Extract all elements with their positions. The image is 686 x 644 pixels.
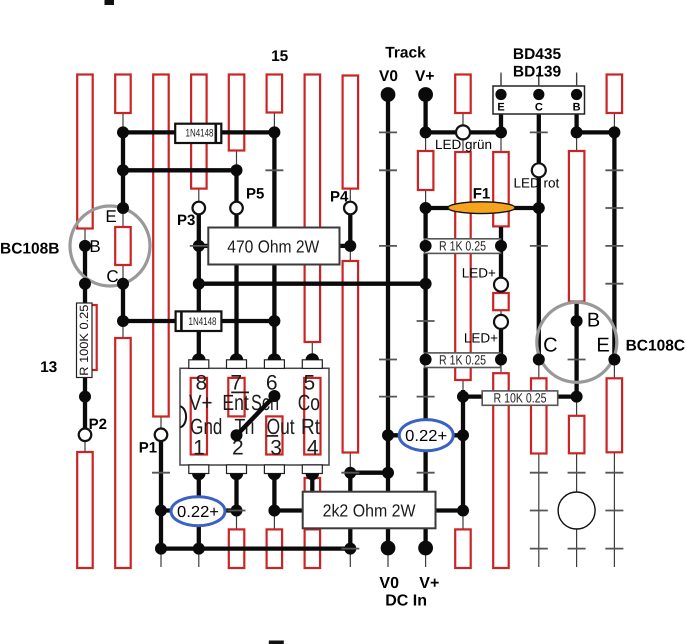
node Q1 collector [117, 278, 129, 290]
strip segment col6 bottom [267, 529, 283, 568]
svg-text:15: 15 [271, 48, 289, 65]
hole tick col9 row4 [379, 245, 397, 247]
svg-text:V+: V+ [189, 390, 213, 415]
strip segment col10 under V+ [418, 151, 434, 190]
board strip column 13 (x=538.8) [538, 75, 540, 568]
pad P3 [193, 202, 206, 215]
hole tick col15 row10 [605, 472, 623, 474]
svg-text:LED grün: LED grün [435, 137, 492, 152]
node row6 col2 [117, 315, 129, 327]
svg-text:BC108C: BC108C [626, 338, 685, 355]
svg-text:P4: P4 [330, 189, 349, 206]
node row8 col11 [457, 391, 469, 403]
strip segment col1 bottom [77, 452, 93, 568]
svg-text:LED+: LED+ [462, 266, 496, 281]
strip segment col11 tall [455, 152, 471, 380]
hole tick col3 row10 [152, 472, 170, 474]
hole tick col15 row2 [605, 169, 623, 171]
LED rot pad [532, 163, 546, 177]
wire col4 P3 down to IC pin 8 [197, 208, 201, 354]
hole tick col15 row3 [605, 207, 623, 209]
U1 pin label Ent overline [231, 391, 249, 393]
hole tick col9 row1 [379, 131, 397, 133]
LED D3 anode pad [494, 278, 508, 292]
node row3 col13 [533, 202, 545, 214]
svg-text:470 Ohm 2W: 470 Ohm 2W [227, 237, 319, 257]
U1 top socket pin 8 [189, 360, 209, 369]
wire col2 collector of Q1 to row6 [121, 284, 125, 321]
node row11 col6 [268, 505, 280, 517]
hole tick col6 row2 [265, 169, 283, 171]
hole tick col4 row4 [190, 245, 208, 247]
diode D1 cathode band [215, 124, 218, 143]
board strip column 7 (x=312.3) [311, 75, 313, 568]
svg-text:C: C [106, 267, 118, 286]
wire col6 IC pin 3 down to row11 [272, 480, 276, 511]
node row4 R3 right [495, 240, 507, 252]
transistor Q3 pin E dot [495, 89, 506, 100]
wire row4 col4 stub into 470 Ohm [199, 244, 209, 248]
strip segment col8 middle [343, 261, 359, 453]
U1 bottom socket pin 1 [189, 465, 209, 474]
hole tick col8 row10 [341, 472, 359, 474]
wire col7 IC pin 4 down to 2k2 resistor [310, 478, 314, 492]
svg-text:B: B [587, 310, 600, 332]
node row11 col11 [457, 505, 469, 517]
node row1 col6 [268, 126, 280, 138]
svg-text:P3: P3 [177, 212, 195, 229]
strip segment col11 bottom [455, 529, 471, 568]
U1 pin3 strip red marker [266, 416, 282, 454]
node row12 col4 [193, 543, 205, 555]
svg-text:C: C [543, 335, 557, 357]
hole tick col10 row10 [417, 472, 435, 474]
hole tick col14 row12 [568, 548, 586, 550]
node row4 R3 left [420, 240, 432, 252]
wire jumper IC pin 6 to pin 2 diagonal [237, 396, 275, 435]
capacitor C1 0.22uF [171, 497, 225, 526]
wire V+ below second R 1K to bottom terminal [423, 368, 427, 549]
wire row4 R 1K stub to LED anode [500, 244, 502, 248]
terminal V0 DC in bottom [381, 541, 396, 556]
board strip column 14 (x=576.6) [576, 75, 578, 568]
LED D3 cathode pad [494, 315, 508, 329]
strip segment col3 tall [153, 75, 169, 417]
node row1 col2 [117, 126, 129, 138]
transistor Q3 lead stub C [538, 73, 540, 87]
resistor R2 2k2 Ohm 2W box [303, 492, 436, 529]
resistor R3 1K box [425, 239, 501, 254]
transistor Q3 lead stub E [500, 73, 502, 87]
resistor R4 100K box [77, 303, 93, 378]
transistor Q3 lead stub B [576, 73, 578, 87]
U1 pin7 strip red marker [228, 378, 244, 417]
wire col6 below 470 Ohm to IC pin 6 [272, 265, 276, 354]
board strip column 11 (x=463) [462, 75, 464, 568]
wire row2 col2 to col5 [123, 168, 237, 172]
wire col5 below 470 Ohm to IC pin 7 [234, 265, 238, 354]
wire V+ terminal to row1 [423, 95, 427, 133]
hole tick col5 row11 [228, 510, 246, 512]
svg-text:R 1K 0.25: R 1K 0.25 [439, 353, 486, 368]
hole tick col10 row8 [417, 396, 435, 398]
svg-text:E: E [497, 102, 504, 114]
svg-text:F1: F1 [473, 186, 491, 203]
svg-text:BC108B: BC108B [0, 241, 59, 258]
pad P2 [79, 429, 92, 442]
wire col6 row1 into 470 Ohm [272, 132, 276, 227]
transistor Q2 BC108C outline [537, 302, 617, 382]
wire row11 col3 to col5 through capacitor C1 0.22 [161, 508, 237, 512]
hole tick col9 row8 [379, 396, 397, 398]
svg-text:LED rot: LED rot [514, 176, 560, 191]
strip segment col4 top [191, 75, 207, 189]
svg-text:LED+: LED+ [464, 331, 498, 346]
terminal V0 track top [381, 87, 396, 102]
board strip column 9 (x=388) [387, 95, 389, 568]
resistor R4 100K body on col1 [79, 305, 97, 370]
svg-text:1N4148: 1N4148 [186, 128, 214, 140]
svg-text:B: B [89, 237, 100, 256]
svg-text:4: 4 [307, 436, 319, 459]
pad P1 [155, 429, 168, 442]
strip segment col12 bottom [493, 373, 509, 568]
svg-text:E: E [596, 335, 609, 357]
wire col12 strip to LED D3 anode [499, 227, 503, 285]
board strip column 4 (x=198.8) [198, 75, 200, 568]
strip segment col5 top [229, 75, 245, 151]
svg-text:0.22+: 0.22+ [405, 428, 447, 445]
node jumper top pin6 [268, 390, 280, 402]
wire col14 BD435 base to row1 [574, 113, 578, 132]
LED gruen pad [456, 125, 470, 139]
node row1 col12 [495, 126, 507, 138]
wire col8 row10 to row12 [348, 473, 352, 549]
cropped glyph top edge [105, 0, 115, 5]
hole tick col8 row12 [341, 548, 359, 550]
hole tick col15 row12 [605, 548, 623, 550]
hole tick col13 row11 [530, 510, 548, 512]
mounting hole [558, 492, 595, 529]
strip segment col6 top [267, 75, 283, 113]
pad P5 [230, 202, 243, 215]
svg-text:DC In: DC In [385, 593, 427, 610]
wire row8 R 10K stub to col14 [557, 394, 577, 398]
wire col4 IC pin 1 down to row12 through capacitor C1 [197, 480, 201, 549]
svg-text:P5: P5 [246, 186, 264, 203]
svg-text:P1: P1 [139, 440, 157, 457]
svg-text:BD139: BD139 [513, 64, 562, 81]
node row7 R5 left [420, 354, 432, 366]
U1 pin1 notch [180, 406, 186, 427]
node row1 col14 [571, 126, 583, 138]
svg-text:Track: Track [385, 45, 426, 62]
resistor R6 10K box [482, 391, 558, 405]
wire V0 rail col9 top terminal to bottom terminal [386, 95, 390, 549]
hole tick col15 row4 [605, 245, 623, 247]
wire row9 col9 to col11 through capacitor C2 0.22 [388, 433, 463, 437]
node row8 col14 [571, 391, 583, 403]
strip segment col2 bottom [115, 338, 131, 568]
svg-text:BD435: BD435 [513, 46, 562, 63]
svg-text:P2: P2 [89, 416, 107, 433]
svg-text:Co: Co [298, 390, 320, 415]
wire col1 base of Q1 down to R 100K [83, 246, 87, 310]
U1 bottom socket pin 2 [227, 465, 247, 474]
board strip column 1 (x=85) [84, 75, 86, 568]
LED body D3 on col12 [493, 293, 509, 310]
wire row3 V+ strip to collector col through fuse F1 [426, 206, 539, 210]
U1 bottom socket pin 4 [302, 465, 322, 474]
wire col8 P4 down to row4 [348, 208, 352, 246]
transistor Q1 BC108B outline [70, 206, 150, 286]
wire col12 LED D3 cathode to row7 [499, 321, 503, 360]
strip stub col7 above 2k2 resistor [305, 478, 321, 492]
hole tick col14 row10 [568, 472, 586, 474]
svg-text:V0: V0 [379, 575, 399, 592]
node row4 col8 [344, 240, 356, 252]
node row12 col8 [344, 543, 356, 555]
svg-text:B: B [573, 102, 581, 114]
node row4 col4 [193, 240, 205, 252]
U1 pin5/4 strip red marker [304, 378, 320, 455]
hole tick col13 row4 [530, 245, 548, 247]
terminal V+ track top [418, 87, 433, 102]
node jumper bottom pin2 [231, 429, 243, 441]
svg-text:Gnd: Gnd [190, 414, 222, 439]
U1 pin label Out underline [267, 435, 279, 437]
node row1 col15 [608, 126, 620, 138]
svg-text:R 100K 0.25: R 100K 0.25 [77, 304, 91, 375]
strip segment col15 middle [607, 378, 623, 452]
pad P4 [344, 202, 357, 215]
wire col2 row1 to emitter of Q1 [121, 132, 125, 210]
node Q2 emitter [608, 354, 620, 366]
transistor Q3 BD435/BD139 box [493, 86, 585, 114]
node row7 R5 right [495, 354, 507, 366]
board strip column 8 (x=350.3) [349, 75, 351, 568]
wire row8 col11 stub into R 10K [463, 394, 483, 398]
board strip column 12 (x=501) [500, 75, 502, 568]
node Q1 base [79, 240, 91, 252]
node row11 col3 [155, 505, 167, 517]
board strip column 15 (x=614.4) [613, 75, 615, 568]
node row1 V+ [420, 126, 432, 138]
hole tick col9 row7 [379, 359, 397, 361]
svg-text:1: 1 [193, 436, 205, 459]
wire row4 V+ stub into R 1K [423, 244, 427, 248]
node Q2 base [571, 315, 583, 327]
svg-text:Rt: Rt [301, 414, 320, 439]
wire row6 col2 to col6 through diode D2 [123, 319, 274, 323]
hole tick col15 row11 [605, 510, 623, 512]
wire row12 col3 to col8 [161, 546, 350, 550]
hole tick col9 row2 [379, 169, 397, 171]
wire row1 col2 to col6 through diode D1 [123, 130, 274, 134]
terminal V+ DC in bottom [418, 541, 433, 556]
wire row7 second R 1K stub to LED anode [500, 357, 502, 361]
svg-text:V+: V+ [419, 575, 439, 592]
diode D2 1N4148 box [176, 311, 222, 331]
strip segment col11 top [455, 75, 471, 114]
board strip column 3 (x=161) [160, 75, 162, 568]
node row3 V+ strip [420, 202, 432, 214]
svg-text:V0: V0 [379, 68, 398, 85]
hole tick col15 row5 [605, 283, 623, 285]
wire col14 strip to Q2 base to row8 [574, 303, 578, 397]
U1 top socket pin 7 [227, 360, 247, 369]
node Q2 collector [533, 354, 545, 366]
diode D2 cathode band [180, 311, 183, 331]
strip segment col14 upper [569, 151, 585, 302]
node row9 col9 [382, 429, 394, 441]
transistor Q3 pin B dot [571, 89, 582, 100]
svg-text:E: E [105, 207, 116, 226]
wire col15 row1 down to Q2 emitter [612, 132, 616, 359]
wire row11 col6 to col11 through resistor 2k2 [274, 508, 463, 512]
svg-text:2k2 Ohm 2W: 2k2 Ohm 2W [323, 501, 416, 521]
node row2 col5 [231, 164, 243, 176]
hole tick col10 row6 [417, 320, 435, 322]
svg-text:R 1K 0.25: R 1K 0.25 [439, 239, 486, 254]
wire col5 IC pin 2 down to row11 [234, 480, 238, 511]
svg-text:1N4148: 1N4148 [189, 316, 217, 328]
node row2 col2 [117, 164, 129, 176]
strip segment col7 tall [305, 75, 321, 343]
svg-text:0.22+: 0.22+ [177, 504, 219, 521]
U1 pin8/1 strip red marker [191, 378, 207, 455]
strip segment col5 bottom [229, 529, 245, 568]
wire col5 row2 through P5 into 470 Ohm [234, 170, 238, 227]
transistor Q3 pin C dot [533, 89, 544, 100]
node row12 col3 [155, 543, 167, 555]
wire row4 470 Ohm stub to col8 [339, 244, 350, 248]
node row8 col1 [79, 391, 91, 403]
node Q1 emitter [117, 202, 129, 214]
node row5 col4 [193, 278, 205, 290]
node row10 col8 [344, 467, 356, 479]
U1 top socket pin 6 [264, 360, 284, 369]
hole tick col13 row1 [530, 131, 548, 133]
resistor R1 470 Ohm 2W box [208, 228, 339, 265]
svg-text:Ent: Ent [222, 390, 249, 415]
hole tick col13 row12 [530, 548, 548, 550]
strip segment col7 bottom [305, 529, 321, 568]
wire row1 BD435 base to col15 [577, 130, 615, 134]
fuse F1 [448, 202, 515, 214]
wire col1 R 100K to P2 [83, 368, 87, 432]
hole tick col14 row7 [568, 359, 586, 361]
strip segment col1 top [77, 75, 93, 229]
cropped glyph bottom edge [269, 641, 284, 644]
svg-text:3: 3 [270, 436, 282, 459]
wire col13 BD435 collector down to Q2 collector [537, 113, 541, 360]
node row6 col6 [268, 315, 280, 327]
strip segment col8 top [343, 76, 359, 189]
node row9 col11 [457, 429, 469, 441]
svg-text:R 10K 0.25: R 10K 0.25 [494, 391, 547, 406]
wire row7 V+ stub into second R 1K [423, 357, 427, 361]
node row5 col1 [79, 278, 91, 290]
svg-text:C: C [535, 102, 543, 114]
wire V+ strip row3 down to R 1K [423, 208, 427, 239]
U1 top socket pin 5 [302, 360, 322, 369]
node row10 col9 [382, 467, 394, 479]
op-amp/timer U1 555 box [180, 368, 329, 465]
strip segment col13 middle [531, 378, 547, 453]
wire col3 P1 down to row12 [159, 428, 163, 549]
board strip column 5 (x=236.5) [236, 75, 238, 568]
hole tick col13 row10 [530, 472, 548, 474]
board strip column 6 (x=274.4) [273, 75, 275, 568]
strip segment col2 top [115, 75, 131, 114]
strip segment col12 upper [493, 152, 509, 226]
U1 bottom socket pin 3 [264, 465, 284, 474]
svg-text:V+: V+ [415, 68, 434, 85]
strip segment col14 middle [569, 416, 585, 454]
wire col12 BD435 emitter to row1 [499, 113, 503, 132]
wire row10 col8 to col9 [350, 471, 388, 475]
capacitor C2 0.22uF [399, 420, 453, 451]
strip segment col15 top [607, 75, 623, 114]
wire V+ between R 1K resistors [423, 253, 427, 353]
diode D1 1N4148 box [175, 124, 221, 143]
board strip column 2 (x=123) [122, 75, 124, 568]
wire row5 col4 to col10 [199, 282, 426, 286]
wire row1 V+ to BD435 emitter through LED gruen [426, 130, 501, 134]
transistor Q1 BC108B body on col2 [115, 227, 131, 265]
board strip column 10 (x=425.6) [425, 95, 427, 568]
node row11 col5 [231, 505, 243, 517]
svg-text:13: 13 [40, 359, 58, 376]
wire col11 row8 to row11 [461, 390, 465, 511]
node row5 col10 [420, 278, 432, 290]
resistor R5 1K box [425, 353, 501, 368]
